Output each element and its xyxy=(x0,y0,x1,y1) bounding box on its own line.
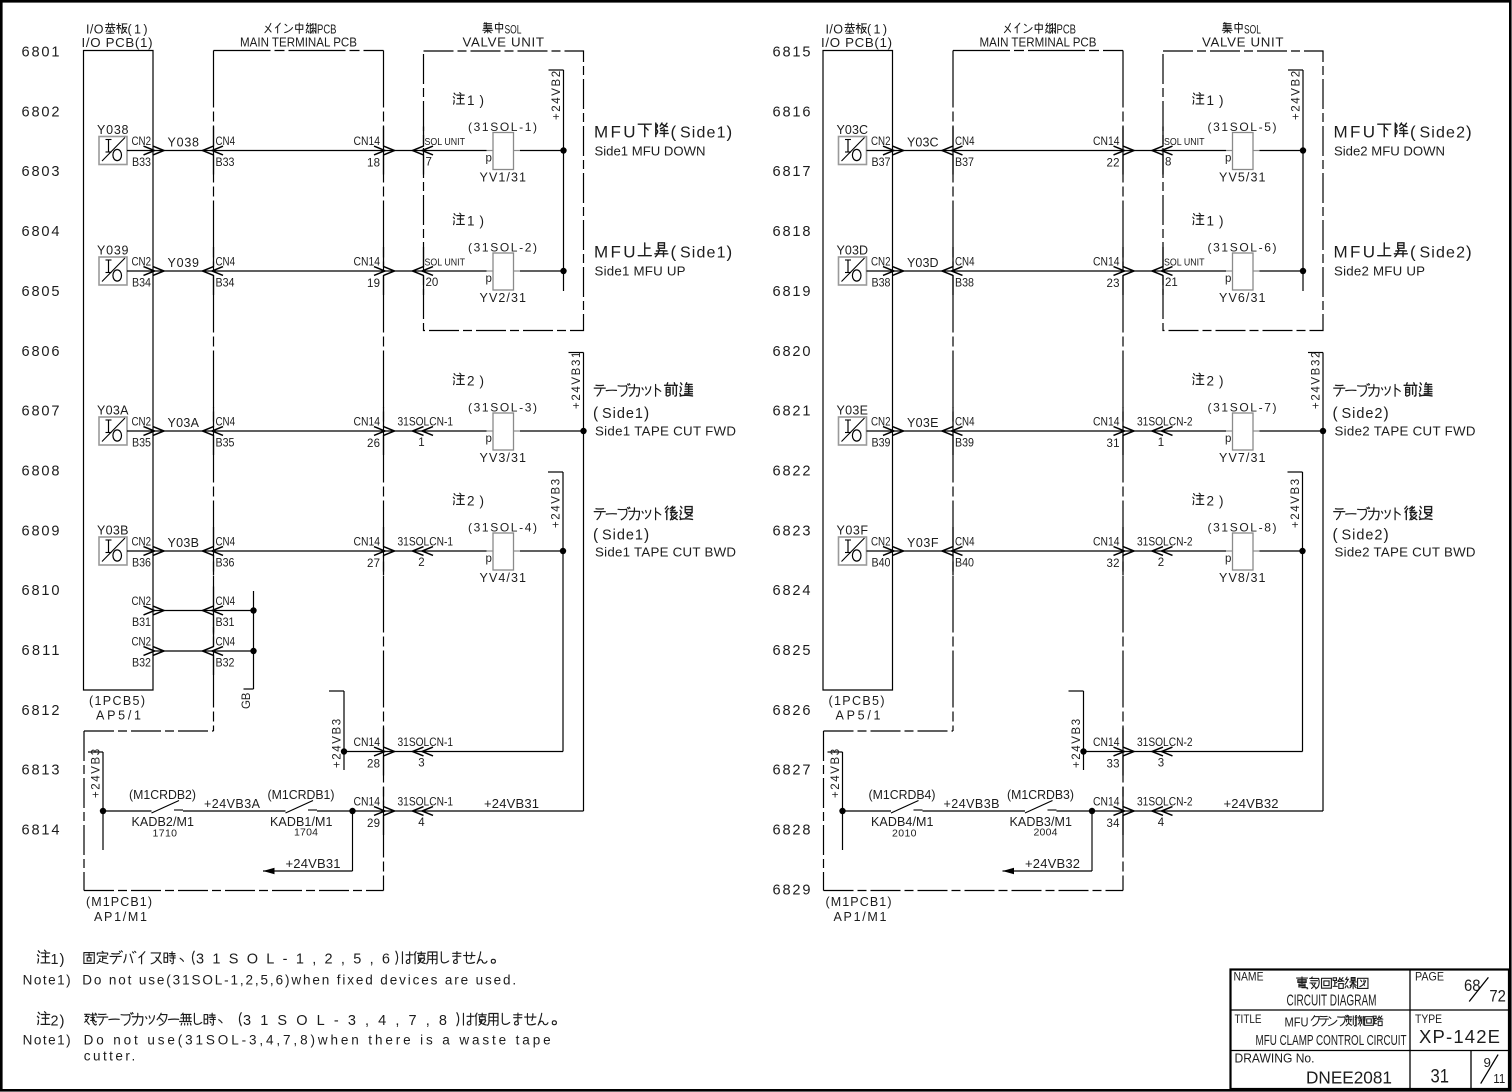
solenoid valve YV2/31 (31SOL-2) xyxy=(493,253,514,290)
svg-text:Y03F: Y03F xyxy=(907,536,939,550)
wire CN2 to CN4 xyxy=(893,270,954,272)
relay contact KADB4/M1 (M1CRDB4) xyxy=(891,801,919,814)
svg-text:6828: 6828 xyxy=(773,823,811,839)
connector 31SOLCN-2 pin 3 xyxy=(1152,747,1163,756)
svg-text:+24VB31: +24VB31 xyxy=(286,856,341,871)
svg-text:): ) xyxy=(1219,93,1224,108)
svg-text:32: 32 xyxy=(1107,558,1120,570)
wire CN2 to CN4 xyxy=(893,150,954,152)
wire CN4 to CN14 xyxy=(214,270,384,272)
svg-text:): ) xyxy=(727,243,733,262)
note ref 2 xyxy=(453,373,464,384)
relay contact KADB2/M1 (M1CRDB2) xyxy=(152,801,180,814)
svg-text:6810: 6810 xyxy=(22,583,60,599)
svg-text:(M1PCB1): (M1PCB1) xyxy=(86,895,152,909)
svg-text:Side1 MFU UP: Side1 MFU UP xyxy=(595,264,686,279)
svg-text:): ) xyxy=(480,494,485,509)
MAIN TERMINAL PCB board boundary right edge CN14 line xyxy=(1122,51,1124,891)
svg-text:23: 23 xyxy=(1107,278,1120,290)
connector CN14 pin 32 xyxy=(1122,527,1124,547)
svg-text:Y038: Y038 xyxy=(97,123,129,137)
note ref 1 xyxy=(453,213,464,224)
relay contact KADB3/M1 (M1CRDB3) xyxy=(1025,801,1053,814)
svg-text:27: 27 xyxy=(367,558,380,570)
connector CN14 pin 33 xyxy=(1122,728,1124,748)
node junction feed-through xyxy=(349,808,355,814)
connector CN14 pin 29 xyxy=(383,787,385,807)
wire CN14 row to +24VB31 bus xyxy=(384,810,584,812)
VALVE UNIT column header xyxy=(483,23,493,33)
svg-text:Side1 TAPE CUT BWD: Side1 TAPE CUT BWD xyxy=(595,545,736,560)
wire CN4 to CN14 xyxy=(953,550,1123,552)
node junction +24VB3/contact wire xyxy=(839,808,845,814)
wire CN2 to CN4 xyxy=(893,430,954,432)
svg-text:33: 33 xyxy=(1107,759,1120,771)
VALVE UNIT column header xyxy=(1222,23,1232,33)
wire YV3 to bus xyxy=(1260,430,1324,432)
svg-text:+24VB3: +24VB3 xyxy=(332,719,344,768)
svg-text:): ) xyxy=(644,405,649,422)
svg-text:B31: B31 xyxy=(132,617,151,629)
power bus +24VB3 upper xyxy=(562,472,564,752)
svg-text:(1PCB5): (1PCB5) xyxy=(89,694,145,708)
svg-text:p: p xyxy=(1225,273,1231,285)
svg-text:(: ( xyxy=(1333,527,1339,544)
connector CN4 pin B37 xyxy=(952,127,954,147)
svg-text:(31SOL-6): (31SOL-6) xyxy=(1208,241,1277,255)
wire CN2 to CN4 xyxy=(893,550,954,552)
svg-text:6816: 6816 xyxy=(773,104,811,120)
svg-text:Y03A: Y03A xyxy=(168,416,200,430)
svg-text:CN14: CN14 xyxy=(1093,417,1120,429)
svg-text:Y03F: Y03F xyxy=(837,524,869,538)
svg-text:31SOLCN-2: 31SOLCN-2 xyxy=(1137,537,1193,549)
wire CN4 to GB line xyxy=(214,650,254,652)
svg-text:(31SOL-7): (31SOL-7) xyxy=(1208,401,1277,415)
svg-text:31SOLCN-2: 31SOLCN-2 xyxy=(1137,417,1193,429)
I/O module Y03B xyxy=(99,537,127,565)
MAIN TERMINAL PCB board boundary right edge CN14 line xyxy=(383,51,385,891)
svg-text:6814: 6814 xyxy=(22,823,60,839)
svg-text:Y03D: Y03D xyxy=(907,256,939,270)
I/O module Y03A xyxy=(99,417,127,445)
svg-text:31: 31 xyxy=(1107,438,1120,450)
svg-text:Side1 TAPE CUT FWD: Side1 TAPE CUT FWD xyxy=(595,424,736,439)
wire CN4 to GB line xyxy=(214,610,254,612)
wire Y038 output xyxy=(127,150,153,152)
svg-text:AP1/M1: AP1/M1 xyxy=(94,910,147,924)
svg-text:CN4: CN4 xyxy=(955,136,975,148)
svg-text:TITLE: TITLE xyxy=(1235,1012,1262,1026)
svg-text:6815: 6815 xyxy=(773,45,811,61)
svg-text:31SOLCN-2: 31SOLCN-2 xyxy=(1137,797,1193,809)
svg-text:26: 26 xyxy=(367,438,380,450)
svg-text:YV6/31: YV6/31 xyxy=(1219,291,1266,305)
svg-text:34: 34 xyxy=(1107,818,1121,830)
wire Y03C output xyxy=(867,150,893,152)
svg-text:(M1CRDB3): (M1CRDB3) xyxy=(1007,788,1074,802)
svg-text:Side1: Side1 xyxy=(602,528,643,544)
svg-text:(M1CRDB1): (M1CRDB1) xyxy=(268,788,335,802)
wire drop to arrow xyxy=(352,811,354,871)
svg-text:(M1PCB1): (M1PCB1) xyxy=(826,895,892,909)
power bus +24VB2 xyxy=(563,70,565,291)
svg-text:Do not use(31SOL-1,2,5,6)when: Do not use(31SOL-1,2,5,6)when fixed devi… xyxy=(82,972,516,987)
wire CN14 to solenoid xyxy=(1123,550,1226,552)
svg-text:Y039: Y039 xyxy=(168,256,200,270)
svg-text:+24VB3: +24VB3 xyxy=(91,749,103,798)
svg-text:): ) xyxy=(1219,494,1224,509)
connector CN4 pin B31 xyxy=(213,587,215,607)
svg-text:CN14: CN14 xyxy=(354,537,381,549)
svg-text:): ) xyxy=(1219,374,1224,389)
signal label TAPE CUT BWD Side1 xyxy=(594,509,605,520)
wire CN14 to solenoid xyxy=(384,150,487,152)
connector CN4 pin B39 xyxy=(952,407,954,427)
note ref 1 xyxy=(1193,93,1204,104)
note ref 2 xyxy=(1193,493,1204,504)
svg-text:19: 19 xyxy=(367,278,380,290)
svg-text:6827: 6827 xyxy=(773,763,811,779)
wire YV1 to +24VB2 bus xyxy=(1260,150,1304,152)
svg-text:(: ( xyxy=(1410,243,1416,262)
svg-text:MFU: MFU xyxy=(1334,123,1376,142)
svg-text:+24VB3B: +24VB3B xyxy=(944,797,1000,811)
wire CN2 to CN4 xyxy=(153,650,214,652)
MAIN TERMINAL PCB board boundary left edge CN4 line xyxy=(952,51,954,732)
power bus +24VB3 stub at CN14 xyxy=(343,691,345,770)
svg-text:+24VB3: +24VB3 xyxy=(1071,719,1083,768)
wire CN2 to CN4 xyxy=(153,270,214,272)
svg-text:CN2: CN2 xyxy=(871,136,891,148)
svg-text:2: 2 xyxy=(467,374,475,389)
svg-text:DRAWING No.: DRAWING No. xyxy=(1235,1051,1315,1066)
svg-text:(31SOL-1): (31SOL-1) xyxy=(468,120,537,134)
node junction +24VB3/CN14 wire xyxy=(1080,748,1086,754)
node junction B32/GB xyxy=(250,648,256,654)
svg-text:Side2 TAPE CUT BWD: Side2 TAPE CUT BWD xyxy=(1335,545,1476,560)
svg-text:+24VB31: +24VB31 xyxy=(484,796,539,811)
svg-text:1: 1 xyxy=(1207,214,1215,229)
svg-text:6826: 6826 xyxy=(773,703,811,719)
solenoid valve YV6/31 (31SOL-6) xyxy=(1233,253,1254,290)
svg-text:p: p xyxy=(486,433,492,445)
svg-text:6801: 6801 xyxy=(22,45,60,61)
ground bus GB xyxy=(253,591,255,689)
svg-text:CN4: CN4 xyxy=(216,537,236,549)
svg-text:2: 2 xyxy=(418,557,424,569)
svg-text:MFU: MFU xyxy=(1334,243,1376,262)
svg-text:2: 2 xyxy=(1158,557,1164,569)
svg-text:Side1: Side1 xyxy=(680,245,726,262)
svg-text:AP5/1: AP5/1 xyxy=(836,709,881,723)
svg-text:CN2: CN2 xyxy=(132,637,152,649)
I/O module Y038 xyxy=(99,137,127,165)
svg-text:31SOLCN-1: 31SOLCN-1 xyxy=(398,737,454,749)
connector CN14 pin 19 xyxy=(383,247,385,267)
svg-text:6817: 6817 xyxy=(773,164,811,180)
svg-text:B32: B32 xyxy=(216,658,235,670)
MAIN TERMINAL PCB board boundary left edge CN4 line xyxy=(213,51,215,732)
svg-text:6819: 6819 xyxy=(773,284,811,300)
connector 31SOLCN-2 pin 4 xyxy=(1152,807,1163,816)
connector CN14 pin 34 xyxy=(1122,787,1124,807)
note ref 2 xyxy=(453,493,464,504)
svg-text:B34: B34 xyxy=(216,278,236,290)
svg-text:CN2: CN2 xyxy=(871,537,891,549)
svg-text:+24VB32: +24VB32 xyxy=(1224,796,1279,811)
svg-text:DNEE2081: DNEE2081 xyxy=(1306,1068,1392,1088)
svg-text:(: ( xyxy=(593,527,599,544)
svg-text:YV4/31: YV4/31 xyxy=(480,571,527,585)
wire CN14 to solenoid xyxy=(1123,430,1226,432)
wire YV4 to bus xyxy=(520,550,563,552)
signal label TAPE CUT FWD Side1 xyxy=(594,385,605,396)
svg-text:B35: B35 xyxy=(216,438,235,450)
svg-text:6813: 6813 xyxy=(22,763,60,779)
svg-text:(M1CRDB4): (M1CRDB4) xyxy=(869,788,936,802)
connector CN4 pin B40 xyxy=(952,527,954,547)
svg-text:p: p xyxy=(486,553,492,565)
connector 31SOLCN-1 pin 2 xyxy=(413,547,424,556)
svg-text:B34: B34 xyxy=(132,278,152,290)
I/O PCB(1) board box 1PCB5 xyxy=(823,51,893,691)
svg-text:CN4: CN4 xyxy=(216,596,236,608)
connector 31SOLCN-1 pin 4 xyxy=(413,807,424,816)
power bus +24VB3 upper xyxy=(1302,472,1304,752)
MAIN TERMINAL PCB column header xyxy=(1004,23,1010,32)
svg-text:68: 68 xyxy=(1464,976,1481,995)
VALVE UNIT box xyxy=(424,51,584,331)
svg-text:Y03C: Y03C xyxy=(837,123,869,137)
svg-text:CN4: CN4 xyxy=(216,637,236,649)
svg-text:(31SOL-3): (31SOL-3) xyxy=(468,401,537,415)
svg-text:7: 7 xyxy=(426,157,432,169)
wire CN4 to CN14 xyxy=(214,550,384,552)
svg-text:2: 2 xyxy=(1207,374,1215,389)
svg-text:Y03B: Y03B xyxy=(168,536,200,550)
svg-text:): ) xyxy=(1466,123,1472,142)
svg-text:Side2 MFU DOWN: Side2 MFU DOWN xyxy=(1334,144,1445,159)
note ref 1 xyxy=(453,93,464,104)
svg-text:VALVE UNIT: VALVE UNIT xyxy=(1202,35,1284,50)
wire CN14 to solenoid xyxy=(384,270,487,272)
off-page arrow +24VB32 xyxy=(1003,870,1093,872)
connector 31SOLCN-1 pin 1 xyxy=(413,427,424,436)
svg-text:): ) xyxy=(60,951,65,968)
svg-text:Y03A: Y03A xyxy=(97,404,129,418)
svg-text:TYPE: TYPE xyxy=(1415,1012,1442,1026)
svg-text:Note1): Note1) xyxy=(23,972,71,987)
svg-text:1: 1 xyxy=(1158,437,1164,449)
I/O module Y039 xyxy=(99,257,127,285)
svg-text:Y03E: Y03E xyxy=(837,404,869,418)
svg-text:YV2/31: YV2/31 xyxy=(480,291,527,305)
svg-text:Y039: Y039 xyxy=(97,244,129,258)
wire CN14 row to +24VB32 bus xyxy=(1123,810,1323,812)
node junction YV4/+24VB3 xyxy=(560,548,566,554)
connector SOL UNIT pin 20 xyxy=(413,267,424,276)
node junction YV1/+24VB2 xyxy=(1300,147,1306,153)
power bus +24VB31 xyxy=(583,353,585,812)
svg-text:B32: B32 xyxy=(132,658,151,670)
svg-text:): ) xyxy=(480,93,485,108)
svg-text:Side1: Side1 xyxy=(680,125,726,142)
svg-text:B33: B33 xyxy=(132,157,151,169)
wire CN4 to CN14 xyxy=(953,430,1123,432)
node junction YV1/+24VB2 xyxy=(560,147,566,153)
svg-text:): ) xyxy=(1466,243,1472,262)
svg-text:SOL UNIT: SOL UNIT xyxy=(425,257,466,269)
connector CN14 pin 26 xyxy=(383,407,385,427)
svg-text:VALVE UNIT: VALVE UNIT xyxy=(463,35,545,50)
svg-text:(31SOL-4): (31SOL-4) xyxy=(468,521,537,535)
svg-text:Side2: Side2 xyxy=(1420,125,1466,142)
svg-text:6808: 6808 xyxy=(22,463,60,479)
connector CN14 pin 27 xyxy=(383,527,385,547)
svg-text:CN2: CN2 xyxy=(871,257,891,269)
svg-text:6822: 6822 xyxy=(773,463,811,479)
wire CN2 to CN4 xyxy=(153,430,214,432)
wire CN14 to solenoid xyxy=(384,550,487,552)
svg-text:p: p xyxy=(1225,153,1231,165)
svg-text:6804: 6804 xyxy=(22,224,60,240)
wire Y03E output xyxy=(867,430,893,432)
svg-text:CN2: CN2 xyxy=(132,537,152,549)
wire Y039 output xyxy=(127,270,153,272)
node junction YV2/+24VB2 xyxy=(1300,268,1306,274)
svg-text:YV7/31: YV7/31 xyxy=(1219,451,1266,465)
svg-text:CN4: CN4 xyxy=(216,257,236,269)
svg-text:p: p xyxy=(1225,433,1231,445)
svg-text:B40: B40 xyxy=(872,558,891,570)
solenoid valve YV3/31 (31SOL-3) xyxy=(493,413,514,450)
wire contact2 to CN14 xyxy=(317,810,384,812)
solenoid valve YV5/31 (31SOL-5) xyxy=(1233,133,1254,170)
svg-text:2: 2 xyxy=(1207,494,1215,509)
svg-text:Side2: Side2 xyxy=(1420,245,1466,262)
connector 31SOLCN-2 pin 2 xyxy=(1152,547,1163,556)
svg-text:72: 72 xyxy=(1489,987,1506,1006)
svg-text:CN14: CN14 xyxy=(1093,737,1120,749)
svg-text:MFU: MFU xyxy=(1285,1016,1309,1030)
svg-text:SOL UNIT: SOL UNIT xyxy=(1164,257,1205,269)
svg-text:3: 3 xyxy=(1158,758,1164,770)
svg-text:2004: 2004 xyxy=(1034,827,1058,839)
node junction +24VB3/contact wire xyxy=(100,808,106,814)
connector CN4 pin B38 xyxy=(952,247,954,267)
MAIN TERMINAL PCB column header xyxy=(265,23,271,32)
wire CN4 to CN14 xyxy=(214,430,384,432)
power bus +24VB3 stub at CN14 xyxy=(1083,691,1085,770)
svg-text:(M1CRDB2): (M1CRDB2) xyxy=(129,788,196,802)
node junction feed-through xyxy=(1089,808,1095,814)
wire YV2 to +24VB2 bus xyxy=(1260,270,1304,272)
svg-text:+24VB2: +24VB2 xyxy=(551,71,563,120)
svg-text:1: 1 xyxy=(467,93,475,108)
svg-text:): ) xyxy=(480,374,485,389)
MAIN TERMINAL PCB board boundary top edge xyxy=(214,50,384,52)
svg-text:CN14: CN14 xyxy=(354,417,381,429)
svg-text:p: p xyxy=(1225,553,1231,565)
svg-text:Y03C: Y03C xyxy=(907,136,939,150)
svg-text:Side2 TAPE CUT FWD: Side2 TAPE CUT FWD xyxy=(1335,424,1476,439)
svg-text:28: 28 xyxy=(367,759,380,771)
solenoid valve YV7/31 (31SOL-7) xyxy=(1233,413,1254,450)
signal label TAPE CUT FWD Side2 xyxy=(1334,385,1345,396)
svg-text:(: ( xyxy=(671,243,677,262)
svg-text:MFU CLAMP CONTROL CIRCUIT: MFU CLAMP CONTROL CIRCUIT xyxy=(1256,1033,1407,1049)
svg-text:1704: 1704 xyxy=(294,827,318,839)
svg-text:6818: 6818 xyxy=(773,224,811,240)
wire Y03B output xyxy=(127,550,153,552)
svg-text:Side2 MFU UP: Side2 MFU UP xyxy=(1334,264,1425,279)
svg-text:Side2: Side2 xyxy=(1342,528,1383,544)
svg-text:22: 22 xyxy=(1107,158,1120,170)
M1PCB1 board box AP1/M1 xyxy=(823,731,825,891)
svg-text:1: 1 xyxy=(1207,93,1215,108)
svg-text:): ) xyxy=(1384,405,1389,422)
svg-text:MAIN TERMINAL PCB: MAIN TERMINAL PCB xyxy=(240,35,357,50)
VALVE UNIT box xyxy=(1163,51,1323,331)
svg-text:I/O PCB(1): I/O PCB(1) xyxy=(82,35,153,50)
svg-text:+24VB32: +24VB32 xyxy=(1311,352,1323,409)
solenoid valve YV1/31 (31SOL-1) xyxy=(493,133,514,170)
svg-text:MAIN TERMINAL PCB: MAIN TERMINAL PCB xyxy=(980,35,1097,50)
connector CN4 pin B34 xyxy=(213,247,215,267)
svg-text:): ) xyxy=(727,123,733,142)
solenoid valve YV4/31 (31SOL-4) xyxy=(493,533,514,570)
connector CN14 pin 23 xyxy=(1122,247,1124,267)
wire bus to contact 1 xyxy=(103,810,152,812)
svg-text:YV8/31: YV8/31 xyxy=(1219,571,1266,585)
connector CN14 pin 18 xyxy=(383,127,385,147)
wire CN14 to solenoid xyxy=(1123,270,1226,272)
svg-text:1: 1 xyxy=(51,951,59,968)
connector SOL UNIT pin 21 xyxy=(1152,267,1163,276)
I/O module Y03D xyxy=(839,257,867,285)
svg-text:2: 2 xyxy=(467,494,475,509)
M1PCB1 board box AP1/M1 xyxy=(83,731,85,891)
wire YV4 to bus xyxy=(1260,550,1303,552)
svg-text:CN4: CN4 xyxy=(955,257,975,269)
wire YV3 to bus xyxy=(520,430,584,432)
svg-text:31SOLCN-1: 31SOLCN-1 xyxy=(398,537,454,549)
node junction B31/GB xyxy=(250,607,256,613)
note ref 2 xyxy=(1193,373,1204,384)
connector CN4 pin B32 xyxy=(213,627,215,647)
svg-text:B36: B36 xyxy=(132,558,151,570)
svg-text:31SOLCN-2: 31SOLCN-2 xyxy=(1137,737,1193,749)
connector CN4 pin B35 xyxy=(213,407,215,427)
svg-text:CN14: CN14 xyxy=(354,797,381,809)
connector SOL UNIT pin 7 xyxy=(413,146,424,155)
svg-text:6829: 6829 xyxy=(773,882,811,898)
svg-text:MFU: MFU xyxy=(594,243,636,262)
wire CN14 row to bus corner xyxy=(1123,751,1303,753)
off-page arrow +24VB31 xyxy=(263,870,353,872)
svg-text:YV1/31: YV1/31 xyxy=(480,171,527,185)
svg-text:B33: B33 xyxy=(216,157,235,169)
wire CN4 to CN14 xyxy=(214,150,384,152)
wire CN2 to CN4 xyxy=(153,610,214,612)
svg-text:AP1/M1: AP1/M1 xyxy=(834,910,887,924)
svg-text:6823: 6823 xyxy=(773,523,811,539)
svg-text:Side2: Side2 xyxy=(1342,406,1383,422)
svg-text:B37: B37 xyxy=(955,157,974,169)
svg-text:CN14: CN14 xyxy=(1093,136,1120,148)
power bus +24VB3 left stub xyxy=(102,752,104,850)
